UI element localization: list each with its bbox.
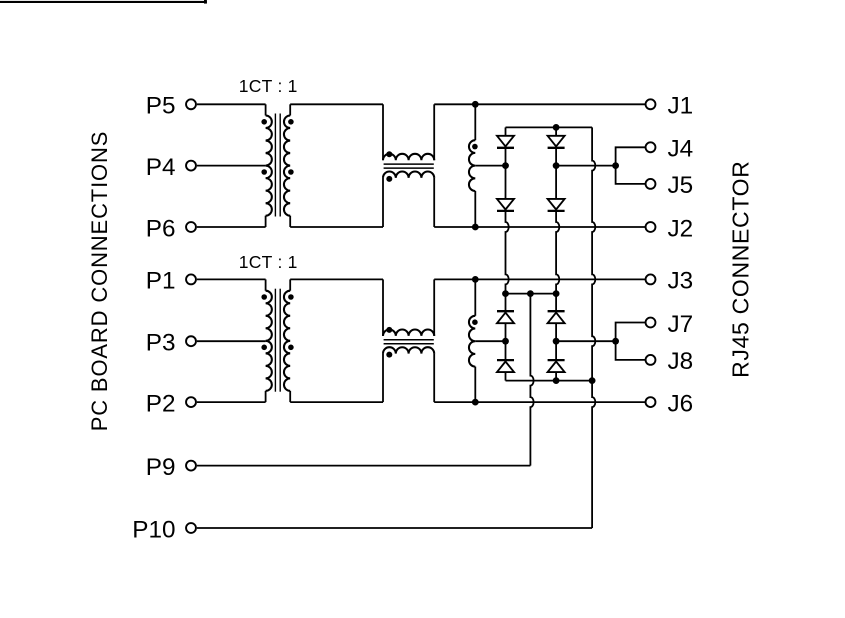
terminal J7 pin circle: [646, 318, 656, 328]
diode D2 (down): [497, 199, 514, 210]
svg-text:J1: J1: [668, 93, 694, 120]
bottom bridge lower rail: [506, 380, 593, 382]
transformer T2 primary winding lower stub: [265, 391, 267, 402]
choke L4 winding (4 humps left, tap mid): [469, 316, 475, 367]
node D junction dot: [553, 338, 560, 345]
wire D1 to node A: [505, 148, 507, 166]
wire J6 rail: [434, 401, 645, 403]
wire node A to D2: [505, 166, 507, 199]
svg-text:1CT : 1: 1CT : 1: [239, 252, 298, 272]
terminal J3 pin circle: [646, 274, 656, 284]
transformer T2 secondary winding lower stub: [289, 391, 291, 402]
svg-text:J4: J4: [668, 136, 694, 163]
wire top rail to D1: [505, 127, 507, 135]
choke L3 lower phase dot: [386, 352, 392, 358]
choke L1 core line upper: [384, 163, 434, 165]
svg-text:P6: P6: [146, 215, 176, 242]
wire D5 to node C: [505, 323, 507, 341]
terminal P1 pin circle: [186, 274, 196, 284]
wire D7 to node D: [555, 323, 557, 341]
transformer T2 secondary phase dot lower: [288, 345, 294, 351]
terminal P10 pin circle: [186, 523, 196, 533]
title-block border fragment (cropped box corner): [0, 1, 207, 3]
transformer T2 secondary winding (bulge left, 8 humps): [284, 291, 290, 391]
terminal P5 pin circle: [186, 99, 196, 109]
choke L1 core line lower: [384, 167, 434, 169]
wire node B to D4: [555, 166, 557, 199]
wire P10 horizontal: [197, 527, 592, 529]
wire J7/J8 bracket: [616, 323, 646, 360]
diode D6 (up): [497, 359, 514, 361]
choke L3 upper winding left stub: [382, 279, 384, 336]
transformer T1 secondary winding upper stub: [289, 104, 291, 115]
junction P9 line on bottom top rail: [527, 290, 534, 297]
wire P3 to T2 center tap: [197, 340, 266, 342]
transformer T1 secondary phase dot lower: [288, 169, 294, 175]
diode D8 (up): [548, 359, 565, 361]
wire D2 down to lower bridge (hops J2 J3): [506, 211, 509, 294]
wire P4 to T1 center tap: [197, 165, 266, 167]
wire P1 to T2 primary: [197, 278, 266, 280]
choke L3 core line lower: [384, 343, 434, 345]
terminal P6 pin circle: [186, 222, 196, 232]
wire T2 secondary to choke L3 (bottom): [290, 401, 383, 403]
junction right column / bottom bridge lower rail: [589, 377, 596, 384]
wire node D to D8: [555, 341, 557, 360]
svg-text:P5: P5: [146, 93, 176, 120]
svg-text:P4: P4: [146, 154, 176, 181]
node A junction dot: [502, 162, 509, 169]
wire P6 to T1 primary: [197, 226, 266, 228]
junction D-col2 on top rail: [553, 124, 560, 131]
terminal J6 pin circle: [646, 397, 656, 407]
choke L3 upper winding (4 humps up): [383, 330, 434, 336]
choke L2 upper stub: [474, 104, 476, 140]
wire top rail to D3: [555, 127, 557, 135]
choke L3 lower winding left stub: [382, 354, 384, 403]
choke L2 lower stub: [474, 191, 476, 227]
svg-text:RJ45 CONNECTOR: RJ45 CONNECTOR: [728, 160, 754, 377]
choke L3 upper phase dot: [386, 327, 392, 333]
transformer T2 primary phase dot lower: [261, 345, 267, 351]
choke L2 winding (4 humps left, tap mid): [469, 140, 475, 191]
terminal J2 pin circle: [646, 222, 656, 232]
svg-text:P10: P10: [132, 516, 175, 543]
node B junction dot: [553, 162, 560, 169]
terminal J8 pin circle: [646, 355, 656, 365]
diode D1 (down): [497, 136, 514, 147]
wire T1 secondary to choke L1 (bottom): [290, 226, 383, 228]
svg-text:J7: J7: [668, 311, 694, 338]
junction col1 on bottom top rail: [502, 290, 509, 297]
choke L4 upper stub: [474, 279, 476, 315]
junction col2 on bottom top rail: [553, 290, 560, 297]
wire D6 to lower rail: [505, 372, 507, 381]
transformer T2 secondary winding upper stub: [289, 279, 291, 290]
choke L4 phase dot: [472, 319, 478, 325]
junction dot J7/J8 split: [612, 338, 619, 345]
transformer T2 secondary phase dot upper: [288, 294, 294, 300]
transformer T1 secondary phase dot upper: [288, 119, 294, 125]
transformer T1 secondary winding lower stub: [289, 216, 291, 227]
terminal P2 pin circle: [186, 397, 196, 407]
choke L3 lower winding (4 humps up): [383, 347, 434, 353]
wire J4/J5 bracket: [616, 147, 646, 184]
choke L1 lower winding right stub: [433, 178, 435, 227]
svg-text:J8: J8: [668, 348, 694, 375]
terminal J1 pin circle: [646, 99, 656, 109]
choke L1 upper winding right stub: [433, 104, 435, 160]
svg-text:P2: P2: [146, 390, 176, 417]
terminal P4 pin circle: [186, 161, 196, 171]
terminal J5 pin circle: [646, 179, 656, 189]
choke L4 lower stub: [474, 367, 476, 403]
transformer T1 secondary winding (bulge left, 8 humps): [284, 116, 290, 216]
svg-text:1CT : 1: 1CT : 1: [239, 76, 298, 96]
transformer T2 primary phase dot upper: [261, 294, 267, 300]
wire J2 rail: [434, 226, 645, 228]
choke L1 lower phase dot: [386, 176, 392, 182]
svg-text:J6: J6: [668, 390, 694, 417]
transformer T1 core line right: [279, 114, 281, 217]
transformer T1 core line left: [274, 114, 276, 217]
choke L1 upper winding left stub: [382, 104, 384, 160]
wire choke L2 tap to diode node A: [475, 165, 505, 167]
node C junction dot: [502, 338, 509, 345]
transformer T1 primary winding (bulge right, 8 humps, tap mid): [266, 116, 272, 216]
choke L1 upper phase dot: [386, 151, 392, 157]
svg-text:PC BOARD CONNECTIONS: PC BOARD CONNECTIONS: [87, 131, 112, 432]
wire J3 rail: [434, 278, 645, 280]
choke L3 core line upper: [384, 339, 434, 341]
wire P2 to T2 primary: [197, 401, 266, 403]
junction choke L2 top on J1 rail: [472, 101, 479, 108]
wire node D to J7/J8 junction: [556, 340, 616, 342]
wire J1 rail: [434, 103, 645, 105]
wire P9 column (hops lower rail and J6): [530, 294, 533, 466]
svg-text:P1: P1: [146, 268, 176, 295]
choke L2 phase dot: [472, 144, 478, 150]
svg-text:J5: J5: [668, 172, 694, 199]
choke L1 lower winding (4 humps up): [383, 172, 434, 178]
diode D7 (up): [548, 310, 565, 312]
wire D4 down to lower bridge (hops J2 J3): [556, 211, 559, 294]
junction col2 on lower rail: [553, 377, 560, 384]
choke L3 lower winding right stub: [433, 354, 435, 403]
transformer T2 core line left: [274, 289, 276, 392]
transformer T2 primary winding (bulge right, 8 humps, tap mid): [266, 291, 272, 391]
wire node B to J4/J5 junction: [556, 165, 616, 167]
wire choke L4 tap to diode node C: [475, 340, 505, 342]
junction choke L2 bottom on J2 rail: [472, 224, 479, 231]
wire T1 secondary to choke L1 (top): [290, 103, 383, 105]
diode D5 (up): [497, 310, 514, 312]
choke L1 upper winding (4 humps up): [383, 154, 434, 160]
wire rail to D5: [505, 294, 507, 312]
svg-text:J3: J3: [668, 268, 694, 295]
wire D8 to lower rail: [555, 372, 557, 381]
terminal P3 pin circle: [186, 336, 196, 346]
junction choke L4 top on J3 rail: [472, 276, 479, 283]
transformer T1 primary phase dot upper: [261, 119, 267, 125]
choke L3 upper winding right stub: [433, 279, 435, 336]
terminal P9 pin circle: [186, 461, 196, 471]
wire P9 horizontal: [197, 465, 531, 467]
transformer T1 primary phase dot lower: [261, 169, 267, 175]
bottom bridge top rail: [506, 293, 557, 295]
junction dot J4/J5 split: [612, 162, 619, 169]
terminal J4 pin circle: [646, 142, 656, 152]
svg-text:J2: J2: [668, 215, 694, 242]
junction choke L4 bottom on J6 rail: [472, 399, 479, 406]
choke L1 lower winding left stub: [382, 178, 384, 227]
transformer T1 primary winding upper stub: [265, 104, 267, 115]
wire P5 to T1 primary: [197, 103, 266, 105]
wire node C to D6: [505, 341, 507, 360]
wire rail to D7: [555, 294, 557, 312]
wire T2 secondary to choke L3 (top): [290, 278, 383, 280]
transformer T1 primary winding lower stub: [265, 216, 267, 227]
svg-text:P9: P9: [146, 454, 176, 481]
svg-text:P3: P3: [146, 330, 176, 357]
diode D3 (down): [548, 136, 565, 147]
transformer T2 primary winding upper stub: [265, 279, 267, 290]
wire D3 to node B: [555, 148, 557, 166]
transformer T2 core line right: [279, 289, 281, 392]
diode D4 (down): [548, 199, 565, 210]
top bridge top rail: [506, 126, 593, 128]
wire right column from top rail to P10 (hops): [592, 127, 595, 528]
